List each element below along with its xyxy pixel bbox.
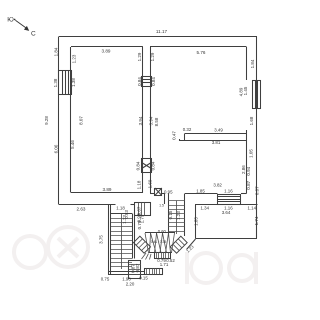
svg-text:2.63: 2.63: [77, 206, 86, 211]
svg-text:0.60: 0.60: [158, 229, 167, 234]
flue box (with cross): [155, 188, 162, 196]
svg-text:1.68: 1.68: [249, 116, 254, 125]
svg-text:0.87: 0.87: [246, 180, 251, 189]
right stair flight treads: [165, 194, 186, 237]
stair straight flight treads: [111, 214, 132, 270]
svg-text:0.15: 0.15: [139, 276, 148, 281]
svg-text:5.46: 5.46: [70, 140, 75, 149]
window W3 (bottom wall of right room): [218, 195, 242, 205]
overall width dimension 11.17: [156, 29, 168, 34]
svg-text:1.71: 1.71: [160, 262, 169, 267]
outer wall (bottom left): [59, 204, 135, 206]
svg-text:9.28: 9.28: [44, 116, 49, 125]
striped box (stair bay window bottom): [155, 252, 171, 259]
inner wall face - left room top: [71, 46, 143, 48]
svg-text:3.89: 3.89: [103, 187, 112, 192]
inner wall face - left room bottom: [71, 192, 143, 194]
svg-text:3.49: 3.49: [214, 128, 223, 133]
svg-text:8.07: 8.07: [78, 116, 83, 125]
svg-text:1.69: 1.69: [148, 179, 153, 188]
angled winder tread box (right): [170, 236, 187, 253]
svg-text:3.89: 3.89: [102, 49, 111, 54]
svg-text:3.94: 3.94: [148, 116, 153, 125]
svg-text:0.35: 0.35: [160, 240, 167, 244]
angled winder tread box (left): [134, 236, 151, 253]
svg-text:6.06: 6.06: [53, 144, 58, 153]
svg-text:1.23: 1.23: [176, 211, 181, 220]
svg-text:3.75: 3.75: [98, 235, 103, 244]
svg-text:1.18: 1.18: [116, 205, 125, 210]
svg-text:3.64: 3.64: [222, 210, 231, 215]
svg-text:5.76: 5.76: [197, 50, 206, 55]
watermark (faint photo watermark letters right): [187, 252, 256, 284]
watermark (faint photo watermark circles left): [14, 227, 88, 268]
svg-text:1.73: 1.73: [122, 215, 127, 224]
svg-text:1.38: 1.38: [53, 78, 58, 87]
svg-text:0.15: 0.15: [168, 210, 173, 219]
svg-text:1.85: 1.85: [193, 217, 198, 226]
striped box (lower landing): [145, 268, 163, 275]
svg-text:8.58: 8.58: [154, 117, 159, 126]
partition wall (between rooms): [143, 47, 151, 193]
svg-text:1.74: 1.74: [254, 216, 259, 225]
svg-text:11.17: 11.17: [156, 29, 168, 34]
partition opening 0.84: [142, 77, 152, 87]
winder fan steps: [145, 233, 175, 253]
diagonal label 1.23 (porch corner door): [185, 244, 195, 254]
dimension labels (vertical): [44, 47, 260, 273]
outer wall (left): [58, 37, 60, 205]
window W1 (left wall): [59, 71, 72, 96]
svg-text:1.29: 1.29: [150, 52, 155, 61]
svg-text:0.84: 0.84: [136, 161, 141, 170]
cupboard box at stair top: [135, 203, 151, 216]
svg-text:1.5: 1.5: [159, 204, 164, 208]
svg-text:0.32: 0.32: [183, 127, 192, 132]
kitchen bottom wall segments: [150, 194, 258, 205]
svg-text:1.38: 1.38: [71, 78, 76, 87]
porch walls: [196, 205, 258, 239]
inner wall face - right room top: [150, 46, 247, 48]
svg-text:1.05: 1.05: [248, 149, 253, 158]
svg-text:0.95: 0.95: [164, 190, 173, 195]
svg-text:0.84: 0.84: [151, 77, 156, 86]
svg-text:1.18: 1.18: [136, 180, 141, 189]
svg-text:1.34: 1.34: [201, 205, 210, 210]
svg-text:1.23: 1.23: [71, 54, 76, 63]
svg-text:0.94: 0.94: [246, 166, 251, 175]
window W2 (right wall): [253, 80, 261, 109]
entry door box (stair bottom right): [129, 261, 142, 279]
svg-text:3.82: 3.82: [213, 182, 222, 187]
svg-text:1.29: 1.29: [137, 52, 142, 61]
inner wall face - right (upper): [246, 47, 248, 80]
inner wall face - right (lower): [246, 130, 248, 194]
right room floor ledge / step: [179, 134, 246, 142]
svg-text:0.41: 0.41: [151, 240, 158, 244]
svg-text:1.84: 1.84: [250, 59, 255, 68]
compass north arrow (Yu-S): [7, 17, 36, 38]
svg-text:0.87: 0.87: [135, 263, 140, 272]
stair shaft walls: [108, 205, 145, 275]
svg-text:3.94: 3.94: [138, 116, 143, 125]
svg-text:1.16: 1.16: [224, 189, 233, 194]
svg-text:0.87: 0.87: [254, 186, 259, 195]
svg-text:0.84: 0.84: [137, 77, 142, 86]
dimension labels (horizontal): [77, 49, 257, 287]
svg-text:1.45: 1.45: [243, 86, 248, 95]
outer wall (right): [256, 37, 258, 238]
svg-text:2.20: 2.20: [126, 281, 135, 286]
svg-text:1.79: 1.79: [140, 214, 145, 223]
svg-text:0.47: 0.47: [172, 131, 177, 140]
svg-text:Ю: Ю: [7, 17, 14, 24]
partition door (with cross mark): [142, 159, 152, 173]
svg-text:3.81: 3.81: [212, 140, 221, 145]
porch corner diagonal: [187, 239, 196, 250]
svg-text:1.14: 1.14: [248, 205, 257, 210]
inner wall face - left: [70, 47, 72, 193]
svg-text:0.84: 0.84: [151, 161, 156, 170]
winder wedge lines lower-left: [142, 253, 152, 260]
outer wall (top): [59, 36, 257, 38]
svg-text:1.84: 1.84: [53, 47, 58, 56]
svg-text:С: С: [31, 31, 36, 38]
svg-text:1.85: 1.85: [196, 189, 205, 194]
svg-text:0.75: 0.75: [101, 276, 110, 281]
